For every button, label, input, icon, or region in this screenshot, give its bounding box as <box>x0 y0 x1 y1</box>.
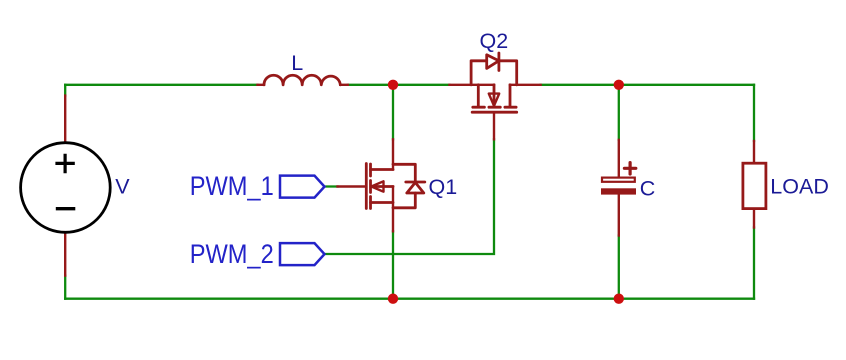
svg-text:PWM_1: PWM_1 <box>190 172 274 202</box>
svg-text:LOAD: LOAD <box>770 175 829 199</box>
svg-text:L: L <box>291 51 303 75</box>
svg-text:Q2: Q2 <box>480 29 509 53</box>
svg-text:PWM_2: PWM_2 <box>190 240 274 270</box>
svg-text:Q1: Q1 <box>429 175 458 199</box>
svg-text:V: V <box>115 175 130 199</box>
svg-text:C: C <box>640 176 656 200</box>
